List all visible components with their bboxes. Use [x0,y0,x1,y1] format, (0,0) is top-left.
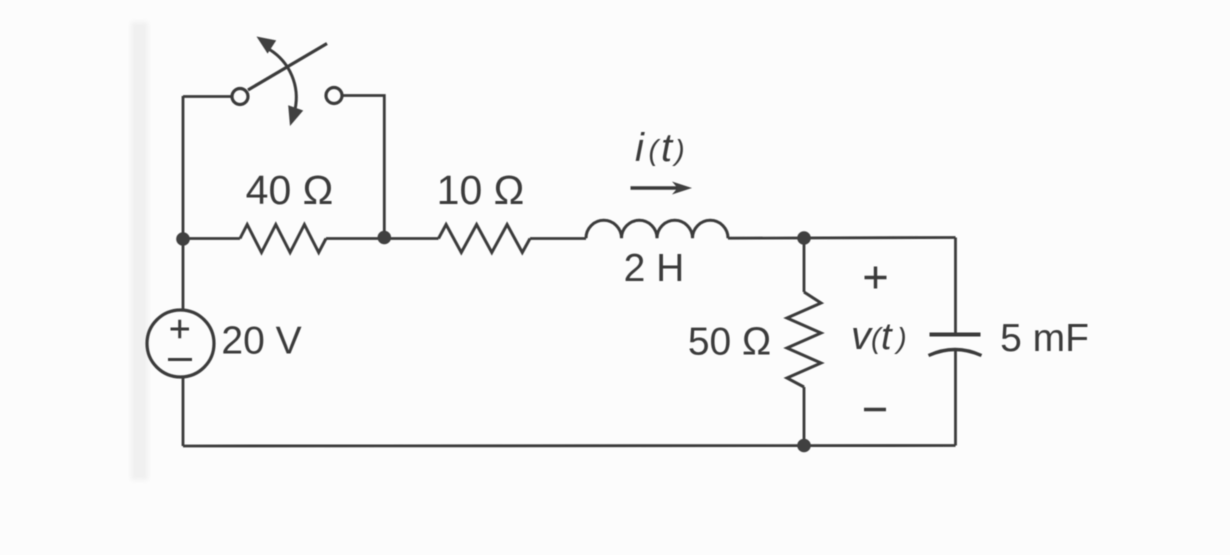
svg-text:t: t [881,316,893,358]
svg-text:): ) [672,135,685,167]
svg-text:10 Ω: 10 Ω [437,167,525,213]
svg-text:2 H: 2 H [624,247,685,290]
svg-text:5 mF: 5 mF [1000,317,1089,360]
svg-text:i: i [635,126,645,170]
svg-text:t: t [661,126,674,170]
svg-text:50 Ω: 50 Ω [688,321,771,364]
svg-text:(: ( [649,135,662,167]
svg-text:20 V: 20 V [221,320,301,363]
svg-text:v: v [851,314,873,358]
svg-text:40 Ω: 40 Ω [246,167,334,213]
svg-text:): ) [894,323,907,355]
